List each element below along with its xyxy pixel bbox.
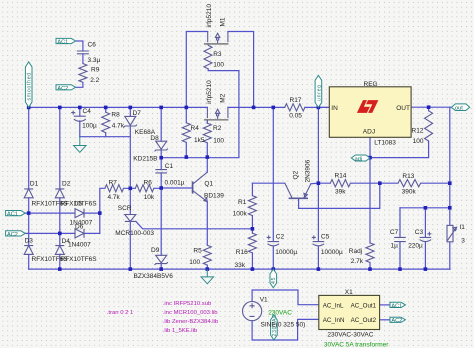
- svg-text:2N3906: 2N3906: [304, 159, 311, 182]
- svg-text:39k: 39k: [335, 188, 346, 195]
- diode D1: [24, 189, 33, 198]
- svg-text:2.7k: 2.7k: [351, 258, 364, 265]
- svg-text:.tran 0 2 1: .tran 0 2 1: [107, 310, 134, 316]
- wire X1 out1: [380, 304, 390, 306]
- wire main bus y107 right: [305, 106, 329, 108]
- svg-text:.inc IRFP5210.sub: .inc IRFP5210.sub: [163, 301, 212, 307]
- svg-text:0.05: 0.05: [289, 113, 302, 120]
- ground below R5: [201, 269, 213, 284]
- svg-text:R16: R16: [236, 249, 248, 256]
- wire AC2 line: [25, 232, 100, 234]
- junction bus-C2: [272, 106, 276, 110]
- junction rail269-D9: [159, 267, 163, 271]
- svg-text:C5: C5: [321, 234, 330, 241]
- junction rail269-R5: [206, 267, 210, 271]
- wire C5 unreg branch: [317, 107, 319, 269]
- zener diode D7: [124, 116, 137, 127]
- junction rail269-R16: [251, 267, 255, 271]
- wire crowbar line R7 R6: [100, 188, 161, 213]
- svg-text:100k: 100k: [233, 210, 248, 217]
- svg-text:V1: V1: [260, 296, 268, 303]
- wire OUT line: [411, 106, 451, 108]
- svg-text:C2: C2: [276, 234, 285, 241]
- svg-text:X1: X1: [345, 289, 353, 296]
- svg-text:100µ: 100µ: [82, 122, 97, 129]
- resistor R3: [204, 45, 212, 69]
- svg-text:230VAC: 230VAC: [268, 309, 292, 316]
- junction rail269-C7: [398, 267, 402, 271]
- svg-text:10k: 10k: [144, 194, 155, 201]
- svg-text:LT1083: LT1083: [374, 140, 396, 147]
- junction bus-D7: [129, 106, 133, 110]
- wire R12 branch: [370, 107, 429, 157]
- wire V1 bottom route: [252, 319, 319, 340]
- svg-text:AC_Out1: AC_Out1: [351, 303, 377, 310]
- wire SCR cathode: [129, 221, 131, 269]
- resistor R13: [398, 180, 421, 187]
- svg-text:100: 100: [213, 138, 224, 145]
- diode D4: [55, 246, 64, 255]
- junction R14R13: [378, 181, 382, 185]
- svg-text:220µ: 220µ: [408, 242, 423, 249]
- wire Q2 emitter connect: [311, 182, 319, 185]
- junction bus-M1R4: [185, 106, 189, 110]
- wire C3 branch: [424, 208, 426, 269]
- wire Q2 collector: [252, 182, 285, 184]
- wire main bus y107 left: [29, 106, 208, 108]
- svg-text:R6: R6: [144, 179, 153, 186]
- svg-text:R17: R17: [290, 97, 302, 104]
- svg-text:100: 100: [413, 138, 424, 145]
- junction crowbar-SCR: [129, 187, 133, 191]
- svg-text:AC1: AC1: [7, 212, 18, 218]
- wire D2 branch: [59, 107, 61, 233]
- svg-text:adj: adj: [355, 156, 362, 162]
- resistor R17: [285, 104, 305, 111]
- wire R8 branch: [105, 107, 107, 136]
- svg-text:1N4007: 1N4007: [68, 241, 91, 248]
- resistor Radj: [366, 243, 374, 263]
- svg-text:irfp5210: irfp5210: [206, 4, 213, 28]
- resistor R7: [105, 185, 124, 192]
- zener diode D8: [155, 141, 168, 151]
- svg-text:R5: R5: [193, 247, 202, 254]
- svg-text:I1: I1: [460, 224, 466, 231]
- diode D3: [24, 246, 33, 255]
- svg-text:1µ: 1µ: [391, 242, 399, 249]
- svg-text:4.7k: 4.7k: [108, 194, 121, 201]
- capacitor C3: [420, 237, 432, 241]
- junction bus-unreg: [317, 106, 321, 110]
- wire R2 stub: [206, 121, 208, 157]
- wire IN pin: [318, 106, 329, 108]
- junction R1R16: [251, 227, 255, 231]
- svg-text:D1: D1: [30, 180, 39, 187]
- resistor R12: [425, 111, 433, 141]
- svg-text:R4: R4: [191, 125, 200, 132]
- junction R12-top: [427, 105, 431, 109]
- wire R9 to AC2: [76, 82, 83, 87]
- svg-text:M1: M1: [219, 17, 226, 26]
- wire D5 D6 cathode vertical: [99, 213, 101, 233]
- svg-text:R3: R3: [213, 51, 222, 58]
- diode D5: [75, 209, 84, 218]
- zener diode D9: [155, 255, 168, 265]
- resistor R8: [102, 112, 110, 132]
- wire R3 to rail: [208, 69, 239, 157]
- junction bus-M1right: [252, 106, 256, 110]
- svg-text:smoothed: smoothed: [27, 72, 33, 100]
- svg-text:33k: 33k: [235, 262, 246, 269]
- transformer X1 box: [319, 295, 380, 329]
- wire SCR anode: [129, 188, 131, 214]
- svg-text:3.3µ: 3.3µ: [88, 57, 101, 64]
- resistor R16: [248, 233, 256, 253]
- svg-text:AC2: AC2: [57, 86, 68, 92]
- svg-text:D3: D3: [25, 237, 34, 244]
- junction rail157-D8C1: [159, 156, 163, 160]
- svg-text:AC1: AC1: [57, 40, 68, 46]
- svg-text:0.001µ: 0.001µ: [165, 179, 185, 186]
- wire Q1 base: [161, 187, 192, 189]
- svg-text:irfp5210: irfp5210: [206, 80, 213, 104]
- wire R13 right: [421, 182, 450, 184]
- regulator U-REG LT1083 box: [329, 87, 411, 138]
- resistor R1: [248, 196, 256, 216]
- junction D5-cathode: [98, 211, 102, 215]
- wire C7 C3 top line: [400, 207, 450, 209]
- wire AC1 to C6: [76, 41, 83, 64]
- capacitor C6: [77, 51, 89, 54]
- svg-text:R2: R2: [213, 125, 222, 132]
- svg-text:230VAC-30VAC: 230VAC-30VAC: [327, 331, 373, 338]
- svg-text:C6: C6: [88, 42, 97, 49]
- port flag AC1-right: [390, 302, 405, 307]
- wire R14 line: [318, 182, 398, 184]
- svg-text:REG: REG: [364, 81, 378, 88]
- wire X1 out2: [380, 319, 390, 321]
- svg-text:30VAC 5A transformer: 30VAC 5A transformer: [324, 341, 389, 348]
- port flag AC1-left: [6, 211, 26, 216]
- junction adj-node: [368, 156, 372, 160]
- svg-text:.lib Zener-BZX384.lib: .lib Zener-BZX384.lib: [163, 319, 219, 325]
- svg-text:.inc MCR100_003.lib: .inc MCR100_003.lib: [163, 310, 218, 316]
- resistor R14: [330, 180, 350, 187]
- resistor R5: [203, 245, 211, 265]
- wire R4 branch: [185, 107, 187, 157]
- junction rail157-R2Q1: [206, 155, 210, 159]
- current load I1: [447, 225, 453, 241]
- port flag AC2-left: [6, 231, 26, 236]
- resistor R4: [182, 123, 190, 143]
- wire Radj branch: [369, 158, 371, 270]
- svg-text:R8: R8: [111, 111, 120, 118]
- resistor R6: [135, 185, 154, 192]
- svg-text:R13: R13: [402, 173, 414, 180]
- svg-text:.lib 1_5KE.lib: .lib 1_5KE.lib: [163, 328, 198, 334]
- svg-text:4.7k: 4.7k: [112, 123, 125, 130]
- net flag 45 (vertical below rail): [270, 269, 277, 288]
- svg-text:AC_InN: AC_InN: [323, 317, 345, 324]
- svg-text:D4: D4: [62, 238, 71, 245]
- wire AC1 line: [25, 212, 100, 214]
- svg-text:100: 100: [189, 259, 200, 266]
- svg-text:BZX384B5V6: BZX384B5V6: [134, 273, 174, 280]
- junction AC2-node: [58, 232, 62, 236]
- junction bus-C4: [78, 106, 82, 110]
- svg-text:AC1: AC1: [391, 303, 402, 309]
- svg-text:1k5: 1k5: [194, 137, 205, 144]
- wire ADJ pin: [369, 137, 371, 157]
- svg-text:M2: M2: [219, 93, 226, 102]
- junction I1-top: [448, 206, 452, 210]
- wire M1 right leg: [228, 32, 254, 108]
- port flag AC2-right: [390, 317, 405, 322]
- junction rail269-C5: [317, 267, 321, 271]
- wire C2 branch: [272, 107, 274, 269]
- wire V1 top route: [252, 290, 319, 305]
- junction rail269-Radj: [368, 267, 372, 271]
- junction rail157-R4: [185, 155, 189, 159]
- capacitor C5: [313, 242, 325, 246]
- svg-text:BD139: BD139: [204, 192, 224, 199]
- mosfet M2: [207, 107, 228, 118]
- svg-text:C1: C1: [165, 163, 174, 170]
- wire C4 R8 D7 bottom: [80, 136, 131, 138]
- wire M1 left leg: [186, 32, 207, 108]
- SCR thyristor: [125, 215, 136, 222]
- svg-text:R12: R12: [412, 127, 424, 134]
- svg-text:R7: R7: [109, 179, 118, 186]
- wire lower rail y157: [161, 157, 239, 159]
- wire Q2 base run: [299, 183, 380, 208]
- junction bus-left-flag: [27, 106, 31, 110]
- ground below C4: [74, 137, 86, 153]
- svg-text:SINE(0 325 50): SINE(0 325 50): [261, 322, 306, 329]
- capacitor C2: [268, 242, 280, 246]
- junction bus-D2: [58, 106, 62, 110]
- svg-text:AC_InL: AC_InL: [323, 303, 344, 310]
- svg-text:AC2: AC2: [7, 232, 18, 238]
- resistor R2: [203, 123, 211, 143]
- LT logo: [357, 100, 379, 113]
- capacitor C4: [74, 116, 86, 121]
- junction bus-D8: [159, 106, 163, 110]
- svg-text:10000µ: 10000µ: [275, 249, 297, 256]
- wire D7 branch: [129, 107, 131, 188]
- junction bus-R8: [104, 106, 108, 110]
- svg-text:MCR100-003: MCR100-003: [115, 230, 154, 237]
- port flag AC2-top: [56, 85, 76, 90]
- svg-text:AC2: AC2: [391, 318, 402, 324]
- transistor Q2: [289, 197, 308, 199]
- mosfet M1: [208, 32, 228, 43]
- diode D2: [55, 189, 64, 198]
- svg-text:IN: IN: [331, 105, 338, 112]
- wire Q1 emitter to R5: [206, 202, 208, 269]
- svg-text:45: 45: [271, 277, 277, 284]
- junction Q2-emitter: [317, 181, 321, 185]
- wire main bus y107 mid: [228, 106, 285, 108]
- capacitor C1: [155, 170, 167, 173]
- svg-text:R9: R9: [91, 67, 100, 74]
- svg-text:C4: C4: [83, 108, 92, 115]
- svg-text:D5: D5: [74, 200, 83, 207]
- net flag adj: [351, 155, 369, 161]
- net flag out: [451, 104, 469, 111]
- svg-text:R14: R14: [335, 172, 347, 179]
- net flag smoothed (vertical): [25, 62, 32, 108]
- diode D6: [75, 229, 84, 238]
- svg-text:D6: D6: [75, 224, 84, 231]
- svg-text:100: 100: [213, 62, 224, 69]
- svg-text:AC_Out2: AC_Out2: [351, 317, 377, 324]
- svg-text:10000µ: 10000µ: [321, 249, 343, 256]
- wire bottom rail y269: [29, 268, 450, 270]
- voltage source V1: [243, 302, 262, 321]
- junction rail269-C2: [272, 267, 276, 271]
- junction C3-top: [424, 206, 428, 210]
- svg-text:C3: C3: [415, 229, 424, 236]
- svg-text:unreg: unreg: [316, 84, 322, 101]
- junction R13-right: [448, 181, 452, 185]
- svg-text:ADJ: ADJ: [363, 129, 375, 136]
- junction rail269-C3: [424, 267, 428, 271]
- port flag AC1-top: [56, 38, 76, 43]
- net flag 230VAC (vertical at V1): [271, 315, 278, 340]
- svg-text:SCR: SCR: [118, 205, 132, 212]
- junction crowbar-Q1base: [159, 186, 163, 190]
- svg-text:OUT: OUT: [396, 105, 410, 112]
- svg-text:Radj: Radj: [349, 248, 362, 255]
- svg-text:R1: R1: [238, 199, 247, 206]
- wire D3 branch: [28, 213, 30, 269]
- wire C4 branch: [79, 107, 81, 136]
- svg-text:D7: D7: [133, 110, 142, 117]
- svg-text:RFX10TF6S: RFX10TF6S: [61, 256, 98, 263]
- wire R16 R1: [251, 183, 253, 269]
- svg-text:2.2: 2.2: [90, 77, 99, 84]
- svg-text:C7: C7: [390, 229, 399, 236]
- wire out drop vertical: [449, 107, 451, 269]
- junction rail269-SCR: [129, 267, 133, 271]
- svg-text:D9: D9: [151, 247, 160, 254]
- wire SCR gate to crowbar rail: [136, 221, 253, 228]
- wire D9 branch: [160, 188, 162, 269]
- junction rail269-D4: [58, 267, 62, 271]
- junction AC1-node: [27, 211, 31, 215]
- capacitor C7: [394, 237, 406, 241]
- wire D8 C1 branch: [160, 107, 162, 188]
- svg-text:Q1: Q1: [204, 180, 213, 187]
- svg-text:390k: 390k: [402, 188, 417, 195]
- svg-text:3: 3: [461, 238, 465, 245]
- wire D4 branch: [59, 233, 61, 269]
- svg-text:Q2: Q2: [293, 170, 300, 179]
- transistor Q1: [192, 181, 194, 193]
- svg-text:KD215B: KD215B: [133, 155, 157, 162]
- wire C7 branch: [399, 208, 401, 269]
- net flag unreg (vertical): [315, 75, 322, 107]
- resistor R9: [79, 64, 87, 83]
- wire D1 branch: [28, 107, 30, 213]
- svg-text:out: out: [455, 106, 463, 112]
- svg-text:D8: D8: [150, 135, 159, 142]
- svg-text:D2: D2: [62, 180, 71, 187]
- wire Q1 collector: [206, 157, 208, 172]
